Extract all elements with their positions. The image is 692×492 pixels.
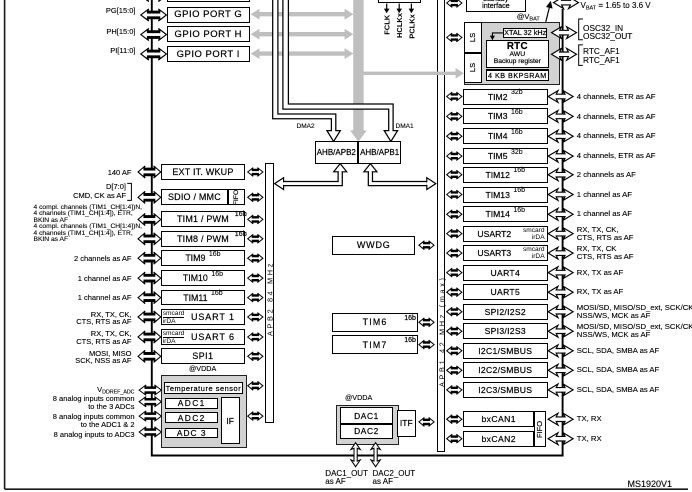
svg-text:FCLK: FCLK — [383, 14, 392, 35]
svg-text:HCLKx: HCLKx — [395, 12, 404, 38]
svg-text:PCLKx: PCLKx — [407, 13, 416, 38]
